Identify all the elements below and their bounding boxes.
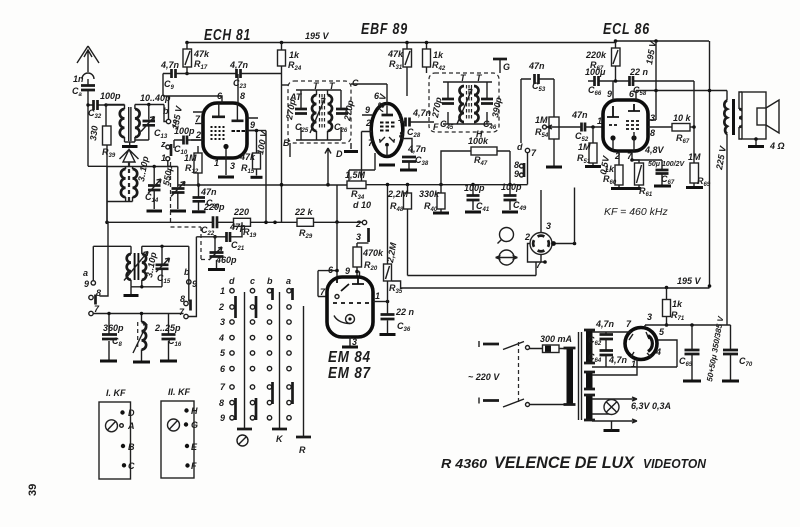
svg-text:b: b bbox=[184, 267, 190, 277]
svg-text:8: 8 bbox=[96, 288, 101, 298]
svg-text:4,8V: 4,8V bbox=[644, 145, 665, 155]
svg-text:C8: C8 bbox=[112, 336, 123, 348]
svg-text:VIDEOTON: VIDEOTON bbox=[643, 457, 707, 471]
svg-text:330: 330 bbox=[88, 125, 100, 141]
svg-text:6: 6 bbox=[220, 364, 226, 374]
svg-text:1M: 1M bbox=[184, 153, 197, 163]
svg-text:460p: 460p bbox=[215, 255, 237, 265]
svg-text:7: 7 bbox=[626, 319, 632, 329]
svg-text:3: 3 bbox=[220, 317, 225, 327]
svg-text:47n: 47n bbox=[200, 187, 217, 197]
svg-text:a: a bbox=[286, 276, 291, 286]
svg-text:2: 2 bbox=[365, 118, 371, 128]
svg-text:3: 3 bbox=[230, 161, 235, 171]
svg-text:100μ: 100μ bbox=[585, 67, 606, 77]
svg-text:4,7n: 4,7n bbox=[407, 144, 427, 154]
svg-text:550p: 550p bbox=[161, 164, 174, 186]
svg-text:50μ 100/2V: 50μ 100/2V bbox=[648, 161, 685, 168]
svg-text:R42: R42 bbox=[432, 60, 446, 72]
svg-text:300 mA: 300 mA bbox=[540, 334, 572, 344]
svg-text:K: K bbox=[276, 434, 284, 444]
svg-text:1M: 1M bbox=[535, 115, 548, 125]
svg-text:22 n: 22 n bbox=[629, 67, 649, 77]
svg-text:4,7n: 4,7n bbox=[412, 108, 432, 118]
svg-text:I. KF: I. KF bbox=[106, 388, 126, 398]
svg-text:195 V: 195 V bbox=[677, 276, 702, 286]
svg-text:C70: C70 bbox=[739, 356, 753, 368]
svg-text:1: 1 bbox=[597, 116, 602, 126]
svg-text:z: z bbox=[160, 139, 166, 149]
svg-text:4: 4 bbox=[655, 347, 661, 357]
svg-text:d 10: d 10 bbox=[353, 200, 371, 210]
svg-text:D: D bbox=[128, 408, 135, 418]
svg-text:R20: R20 bbox=[364, 260, 378, 272]
svg-text:1: 1 bbox=[161, 153, 166, 163]
svg-text:B: B bbox=[128, 442, 135, 452]
svg-text:8: 8 bbox=[240, 91, 245, 101]
svg-text:220: 220 bbox=[233, 207, 249, 217]
svg-text:9: 9 bbox=[514, 169, 519, 179]
svg-text:22 n: 22 n bbox=[395, 307, 415, 317]
svg-text:C26: C26 bbox=[334, 122, 348, 134]
svg-text:330k: 330k bbox=[419, 189, 440, 199]
svg-text:R24: R24 bbox=[288, 60, 302, 72]
svg-text:47n: 47n bbox=[528, 61, 545, 71]
svg-text:47p: 47p bbox=[229, 222, 246, 232]
svg-text:R: R bbox=[299, 445, 306, 455]
svg-text:EM 87: EM 87 bbox=[328, 365, 371, 382]
svg-text:G: G bbox=[503, 62, 510, 72]
svg-text:2..25p: 2..25p bbox=[154, 323, 181, 333]
svg-text:47k: 47k bbox=[387, 49, 404, 59]
svg-text:R29: R29 bbox=[299, 228, 313, 240]
svg-text:9: 9 bbox=[192, 279, 197, 289]
svg-text:1M: 1M bbox=[688, 152, 701, 162]
svg-text:1M: 1M bbox=[578, 142, 591, 152]
svg-text:1k: 1k bbox=[433, 50, 444, 60]
svg-text:39: 39 bbox=[27, 484, 39, 496]
svg-text:a: a bbox=[83, 268, 88, 278]
svg-text:2: 2 bbox=[355, 219, 361, 229]
svg-text:C45: C45 bbox=[440, 119, 454, 131]
svg-text:~ 220 V: ~ 220 V bbox=[468, 372, 500, 382]
svg-text:F: F bbox=[191, 461, 197, 471]
svg-text:100 V: 100 V bbox=[255, 129, 269, 155]
svg-text:100p: 100p bbox=[464, 183, 485, 193]
svg-text:8: 8 bbox=[399, 130, 404, 140]
svg-text:3: 3 bbox=[356, 232, 361, 242]
svg-text:C23: C23 bbox=[233, 78, 247, 90]
svg-text:R67: R67 bbox=[676, 133, 690, 145]
svg-text:H: H bbox=[191, 406, 198, 416]
svg-text:C: C bbox=[352, 78, 359, 88]
svg-text:360p: 360p bbox=[103, 323, 124, 333]
svg-text:4 Ω: 4 Ω bbox=[769, 141, 785, 151]
svg-text:C58: C58 bbox=[633, 85, 647, 97]
svg-text:2: 2 bbox=[218, 302, 224, 312]
svg-text:2: 2 bbox=[195, 130, 201, 140]
svg-text:5: 5 bbox=[220, 348, 226, 358]
svg-text:KF = 460 kHz: KF = 460 kHz bbox=[604, 206, 668, 218]
svg-text:d: d bbox=[517, 142, 523, 152]
svg-text:R61: R61 bbox=[639, 186, 653, 198]
svg-text:C49: C49 bbox=[513, 200, 527, 212]
svg-text:47n: 47n bbox=[571, 110, 588, 120]
svg-text:7: 7 bbox=[195, 114, 201, 124]
svg-text:9: 9 bbox=[365, 105, 370, 115]
svg-text:1k: 1k bbox=[604, 164, 615, 174]
svg-text:7: 7 bbox=[220, 382, 226, 392]
svg-text:C36: C36 bbox=[397, 321, 411, 333]
svg-text:C46: C46 bbox=[483, 119, 497, 131]
svg-text:EM 84: EM 84 bbox=[328, 349, 371, 366]
svg-text:C9: C9 bbox=[164, 79, 175, 91]
svg-text:9: 9 bbox=[607, 89, 612, 99]
svg-text:R39: R39 bbox=[102, 147, 116, 159]
svg-text:A: A bbox=[127, 421, 135, 431]
svg-text:4,7n: 4,7n bbox=[229, 60, 249, 70]
svg-text:220k: 220k bbox=[585, 50, 607, 60]
svg-text:C14: C14 bbox=[145, 192, 159, 204]
svg-text:2: 2 bbox=[524, 232, 530, 242]
svg-text:R31: R31 bbox=[389, 59, 403, 71]
svg-text:3: 3 bbox=[546, 221, 551, 231]
svg-text:225 V: 225 V bbox=[714, 144, 728, 171]
svg-text:4,7n: 4,7n bbox=[160, 60, 180, 70]
svg-text:II. KF: II. KF bbox=[168, 387, 191, 397]
svg-text:d: d bbox=[229, 276, 235, 286]
svg-text:1,5M: 1,5M bbox=[345, 170, 366, 180]
svg-text:VELENCE DE LUX: VELENCE DE LUX bbox=[494, 453, 636, 472]
svg-text:270p: 270p bbox=[284, 98, 298, 121]
svg-text:3: 3 bbox=[647, 312, 652, 322]
svg-text:R17: R17 bbox=[194, 59, 208, 71]
svg-text:47k: 47k bbox=[193, 49, 210, 59]
svg-text:R40: R40 bbox=[424, 201, 438, 213]
svg-text:2,2M: 2,2M bbox=[387, 189, 409, 199]
svg-text:H: H bbox=[476, 129, 483, 139]
svg-text:B: B bbox=[283, 138, 290, 148]
svg-text:9: 9 bbox=[220, 413, 225, 423]
svg-text:C32: C32 bbox=[88, 108, 102, 120]
svg-text:1: 1 bbox=[631, 359, 636, 369]
svg-text:C15: C15 bbox=[157, 273, 171, 285]
svg-text:C67: C67 bbox=[661, 174, 675, 186]
svg-text:1k: 1k bbox=[289, 50, 300, 60]
svg-text:9: 9 bbox=[345, 266, 350, 276]
svg-text:8: 8 bbox=[219, 398, 224, 408]
svg-text:270p: 270p bbox=[430, 96, 444, 119]
svg-text:R47: R47 bbox=[474, 155, 488, 167]
svg-text:22 k: 22 k bbox=[294, 207, 314, 217]
svg-text:1n: 1n bbox=[73, 74, 84, 84]
svg-text:1: 1 bbox=[220, 286, 225, 296]
svg-text:ECH 81: ECH 81 bbox=[204, 27, 251, 44]
svg-text:9: 9 bbox=[84, 279, 89, 289]
svg-text:2: 2 bbox=[614, 151, 620, 161]
svg-text:5: 5 bbox=[659, 327, 665, 337]
svg-text:1: 1 bbox=[375, 291, 380, 301]
svg-text:ECL 86: ECL 86 bbox=[603, 21, 650, 38]
svg-text:G: G bbox=[191, 420, 198, 430]
svg-text:100p: 100p bbox=[501, 182, 522, 192]
svg-text:470k: 470k bbox=[362, 248, 384, 258]
svg-text:R48: R48 bbox=[390, 201, 404, 213]
svg-text:C: C bbox=[128, 461, 135, 471]
svg-text:C66: C66 bbox=[588, 85, 602, 97]
svg-text:270p: 270p bbox=[342, 99, 356, 122]
svg-text:10 k: 10 k bbox=[673, 113, 692, 123]
svg-text:4,7n: 4,7n bbox=[595, 319, 615, 329]
svg-text:9: 9 bbox=[250, 120, 255, 130]
svg-text:7: 7 bbox=[320, 287, 326, 297]
svg-text:47k: 47k bbox=[239, 152, 256, 162]
svg-text:c: c bbox=[250, 276, 255, 286]
svg-text:8: 8 bbox=[180, 294, 185, 304]
svg-text:R54: R54 bbox=[535, 127, 549, 139]
svg-text:195 V: 195 V bbox=[305, 31, 330, 41]
svg-text:C25: C25 bbox=[295, 122, 309, 134]
svg-text:C21: C21 bbox=[231, 240, 245, 252]
svg-text:7: 7 bbox=[94, 304, 100, 314]
svg-text:1: 1 bbox=[214, 158, 219, 168]
svg-text:C69: C69 bbox=[679, 356, 693, 368]
svg-text:1k: 1k bbox=[672, 299, 683, 309]
svg-text:D: D bbox=[336, 149, 343, 159]
svg-text:EBF 89: EBF 89 bbox=[361, 21, 408, 38]
svg-text:10..40p: 10..40p bbox=[140, 93, 171, 103]
svg-text:Ca: Ca bbox=[72, 86, 83, 98]
svg-text:100p: 100p bbox=[100, 91, 121, 101]
svg-text:R 4360: R 4360 bbox=[441, 456, 488, 471]
svg-text:7: 7 bbox=[531, 148, 537, 158]
svg-text:C28: C28 bbox=[407, 127, 421, 139]
svg-text:3: 3 bbox=[650, 113, 655, 123]
svg-text:4: 4 bbox=[218, 333, 224, 343]
svg-text:E: E bbox=[191, 442, 198, 452]
svg-text:b: b bbox=[267, 276, 273, 286]
svg-text:1: 1 bbox=[398, 113, 403, 123]
svg-text:C38: C38 bbox=[415, 155, 429, 167]
svg-text:R71: R71 bbox=[671, 310, 685, 322]
svg-text:3: 3 bbox=[352, 337, 357, 347]
svg-text:F: F bbox=[433, 122, 439, 132]
svg-text:6,3V 0,3A: 6,3V 0,3A bbox=[631, 401, 671, 411]
svg-text:8: 8 bbox=[650, 128, 655, 138]
svg-text:4,7n: 4,7n bbox=[608, 355, 628, 365]
